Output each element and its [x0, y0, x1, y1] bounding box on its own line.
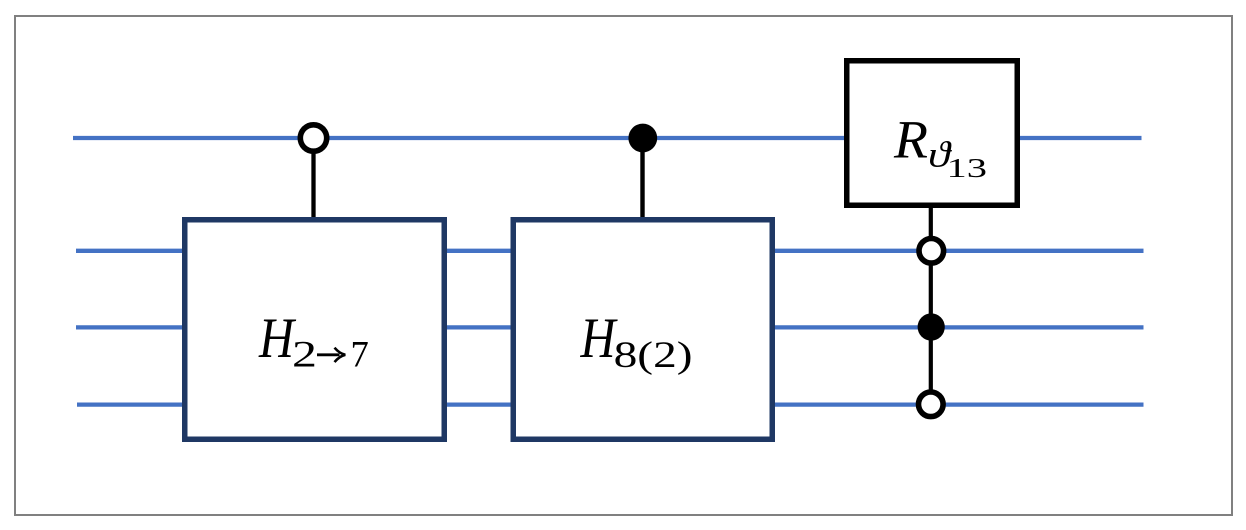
filled control on q0 for gate H2: [628, 124, 657, 153]
svg-text:H: H: [258, 307, 296, 370]
svg-text:H: H: [580, 307, 618, 370]
open control on q3 for gate R: [919, 392, 944, 417]
gate box R: [847, 61, 1018, 206]
wire multi-control stem of gate R: [929, 204, 933, 404]
wire control stem of gate H1: [311, 148, 315, 220]
open control on q0 for gate H1: [300, 125, 326, 151]
gate box H2: [513, 220, 772, 440]
filled control on q2 for gate R: [918, 313, 945, 340]
wire q1: [76, 249, 1144, 253]
svg-text:8(2): 8(2): [614, 335, 693, 376]
value label subscript arrow: [317, 353, 340, 356]
gate box H1: [185, 220, 445, 440]
wire q0: [73, 136, 1142, 140]
svg-text:2: 2: [292, 335, 317, 376]
svg-text:13: 13: [947, 153, 988, 183]
wire q2: [76, 325, 1144, 329]
svg-text:7: 7: [351, 335, 369, 376]
wire q3: [77, 402, 1144, 406]
open control on q1 for gate R: [919, 239, 944, 264]
wire control stem of gate H2: [640, 148, 644, 220]
svg-text:R: R: [893, 109, 928, 170]
